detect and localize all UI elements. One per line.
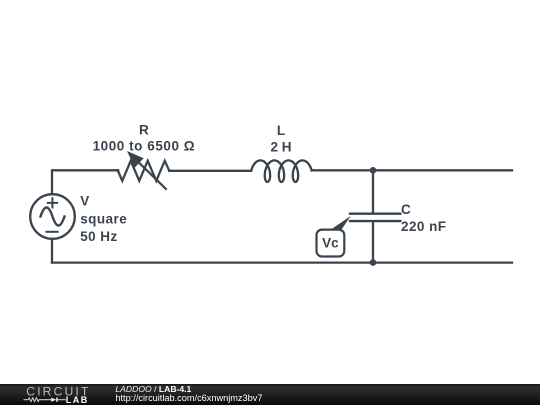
node bottom junction [370, 259, 377, 266]
arrowhead of variable resistor [127, 151, 144, 168]
wire source bottom [51, 240, 53, 263]
resistor R (variable) [118, 161, 169, 181]
svg-text:V: V [80, 194, 89, 209]
svg-text:1000 to 6500 Ω: 1000 to 6500 Ω [93, 139, 196, 154]
wire resistor to inductor [118, 169, 251, 172]
footer bar [0, 384, 540, 405]
svg-text:2 H: 2 H [270, 139, 291, 154]
voltage source V1 [30, 194, 75, 239]
node top junction [370, 167, 377, 174]
inductor L [251, 160, 311, 182]
capacitor C plates [350, 214, 400, 221]
arrow of variable resistor [138, 162, 166, 189]
wire capacitor top [372, 170, 374, 212]
svg-text:L: L [277, 123, 285, 138]
svg-text:R: R [139, 123, 149, 138]
Vc probe box [317, 230, 345, 257]
svg-text:Vc: Vc [322, 235, 339, 250]
svg-text:C: C [401, 202, 411, 217]
svg-text:square: square [80, 211, 127, 226]
svg-text:50 Hz: 50 Hz [80, 229, 118, 244]
wire capacitor bottom [372, 222, 374, 263]
footer title text [115, 385, 262, 403]
Vc callout pointer [329, 216, 351, 231]
CircuitLab logo [0, 384, 110, 405]
wire top-left (source to resistor) [52, 170, 118, 193]
svg-text:LAB: LAB [66, 395, 89, 405]
bottom rail [52, 261, 512, 263]
wire inductor to right edge [312, 169, 512, 171]
svg-text:220 nF: 220 nF [401, 219, 446, 234]
